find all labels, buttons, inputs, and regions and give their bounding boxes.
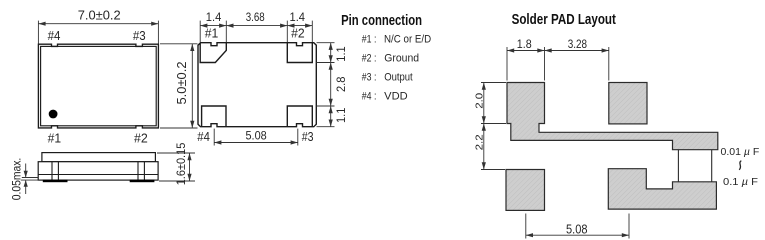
view2 pad #1 outline with index chamfer (200, 43, 226, 63)
dim text 1.4 (left) (206, 10, 222, 24)
pin list line #3 (362, 72, 413, 84)
solder left dim line 2.0 / 2.2 with arrows (482, 83, 486, 170)
view2 right dim line 1.1 / 2.8 / 1.1 with arrows (329, 43, 333, 127)
capacitor outline lines (678, 150, 711, 182)
svg-text:1.4: 1.4 (290, 10, 306, 24)
view2 bottom-view body outline with chamfers and notches (198, 43, 316, 127)
view2 top dims extension lines (200, 21, 312, 42)
dim 0.05max reference lines (21, 178, 39, 181)
svg-text:1.8: 1.8 (517, 37, 532, 51)
svg-text:#1: #1 (48, 131, 62, 146)
solder top dims extension lines (507, 47, 609, 81)
svg-text:2.2: 2.2 (473, 134, 485, 150)
title Pin connection (341, 13, 422, 29)
svg-text:2.0: 2.0 (473, 93, 485, 109)
view2 top dim line 1.4 / 3.68 / 1.4 with arrows (200, 24, 312, 28)
svg-text:5.08: 5.08 (246, 128, 267, 142)
svg-text:Solder PAD Layout: Solder PAD Layout (512, 12, 616, 28)
capacitor label 0.01 uF (721, 146, 760, 158)
svg-text:Output: Output (384, 72, 413, 84)
sideview castellation lines right (138, 162, 144, 180)
dim text 5.0±0.2 rotated (174, 62, 189, 105)
dim text 1.4 (right) (290, 10, 306, 24)
svg-text:1.6±0.15: 1.6±0.15 (176, 143, 188, 186)
svg-text:#4: #4 (197, 129, 210, 144)
svg-text:#2: #2 (134, 131, 148, 146)
title Solder PAD Layout (512, 12, 616, 28)
svg-text:5.0±0.2: 5.0±0.2 (174, 62, 189, 105)
view1 pad label #1 (48, 131, 62, 146)
svg-text:0.01 µ F: 0.01 µ F (721, 146, 760, 158)
solder pad top-left with neck and strip (hatched) (507, 83, 718, 150)
view2 pad #4 outline (202, 106, 226, 127)
view2 pad label #3 (302, 129, 314, 144)
solder left dims extension lines (481, 83, 506, 170)
svg-text:1.1: 1.1 (334, 107, 348, 123)
solder pad top-right (hatched) (609, 83, 647, 124)
dim text 2.8 rotated (334, 76, 348, 92)
capacitor range squiggle (739, 161, 741, 170)
view1 pad label #4 (48, 28, 61, 43)
svg-text:3.68: 3.68 (246, 10, 265, 24)
svg-text:VDD: VDD (384, 90, 408, 102)
svg-text:#3: #3 (133, 28, 146, 43)
sideview lid (42, 153, 155, 162)
view2 pad #2 outline (287, 43, 312, 63)
svg-text:#4 :: #4 : (362, 90, 377, 102)
dim 5.0±0.2 extension lines (160, 44, 198, 128)
view1 pin1 index dot (49, 110, 58, 119)
pin list line #4 (362, 90, 408, 102)
solder pad bottom-right (hatched) (608, 169, 716, 209)
dim text 1.1 (top) rotated (334, 46, 348, 62)
dim text 2.0 rotated (473, 93, 485, 109)
view1 top-view body outline with castellation notches (38, 44, 158, 128)
dim text 5.08 (view2) (246, 128, 267, 142)
dim text 7.0±0.2 (78, 7, 121, 22)
svg-text:5.08: 5.08 (566, 222, 588, 236)
dim 7.0±0.2 extension lines (38, 21, 158, 44)
solder top dim line 1.8 / 3.28 with arrows (507, 48, 609, 52)
view2 bottom dim 5.08 line and arrows (214, 140, 298, 144)
pin list line #1 (362, 33, 431, 45)
dim text 3.28 (568, 37, 588, 51)
svg-text:#2 :: #2 : (362, 53, 377, 65)
svg-text:#3: #3 (302, 129, 314, 144)
sideview base seam line (38, 174, 158, 176)
svg-text:3.28: 3.28 (568, 37, 588, 51)
dim text 2.2 rotated (473, 134, 485, 150)
svg-text:1.1: 1.1 (334, 46, 348, 62)
view2 pad #3 outline (287, 106, 312, 127)
dim text 5.08 (solder) (566, 222, 588, 236)
view2 pad label #1 (205, 25, 219, 40)
view2 right dims extension lines (317, 43, 335, 127)
dim 5.0±0.2 line and arrows (190, 44, 194, 128)
dim 0.05max arrows (24, 164, 28, 195)
svg-text:#2: #2 (291, 25, 305, 40)
solder bottom dim 5.08 extension lines (526, 214, 629, 239)
dim text 1.6±0.15 rotated (176, 143, 188, 186)
view1 inner lid outline (41, 46, 157, 125)
svg-text:0.1 µ F: 0.1 µ F (723, 176, 758, 188)
dim 1.6±0.15 line and arrows (187, 153, 191, 181)
dim text 1.8 (517, 37, 532, 51)
pin list line #2 (362, 53, 419, 65)
dim 1.6±0.15 extension lines (157, 153, 195, 181)
svg-text:7.0±0.2: 7.0±0.2 (78, 7, 121, 22)
solder bottom dim 5.08 line and arrows (526, 233, 629, 237)
svg-text:#1: #1 (205, 25, 219, 40)
solder pad bottom-left (hatched) (506, 170, 545, 211)
svg-text:#3 :: #3 : (362, 72, 377, 84)
svg-text:N/C or E/D: N/C or E/D (384, 33, 431, 45)
dim text 1.1 (bottom) rotated (334, 107, 348, 123)
view1 pad label #3 (133, 28, 146, 43)
view2 pad label #2 (291, 25, 305, 40)
svg-text:1.4: 1.4 (206, 10, 222, 24)
svg-text:0.05max.: 0.05max. (12, 158, 24, 201)
view2 bottom dim 5.08 extension lines (214, 129, 298, 146)
dim text 3.68 (246, 10, 265, 24)
svg-text:Ground: Ground (384, 53, 419, 65)
sideview castellation lines left (52, 162, 58, 180)
capacitor label 0.1 uF (723, 176, 758, 188)
sideview bottom pad left (black) (43, 180, 68, 183)
dim text 0.05max rotated (12, 158, 24, 201)
sideview base (38, 162, 158, 180)
svg-text:Pin connection: Pin connection (341, 13, 422, 29)
svg-text:2.8: 2.8 (334, 76, 348, 92)
view1 pad label #2 (134, 131, 148, 146)
svg-text:#1 :: #1 : (362, 33, 377, 45)
view2 pad label #4 (197, 129, 210, 144)
sideview bottom pad right (black) (130, 180, 155, 183)
dim 7.0±0.2 line and arrows (38, 22, 158, 26)
svg-text:#4: #4 (48, 28, 61, 43)
